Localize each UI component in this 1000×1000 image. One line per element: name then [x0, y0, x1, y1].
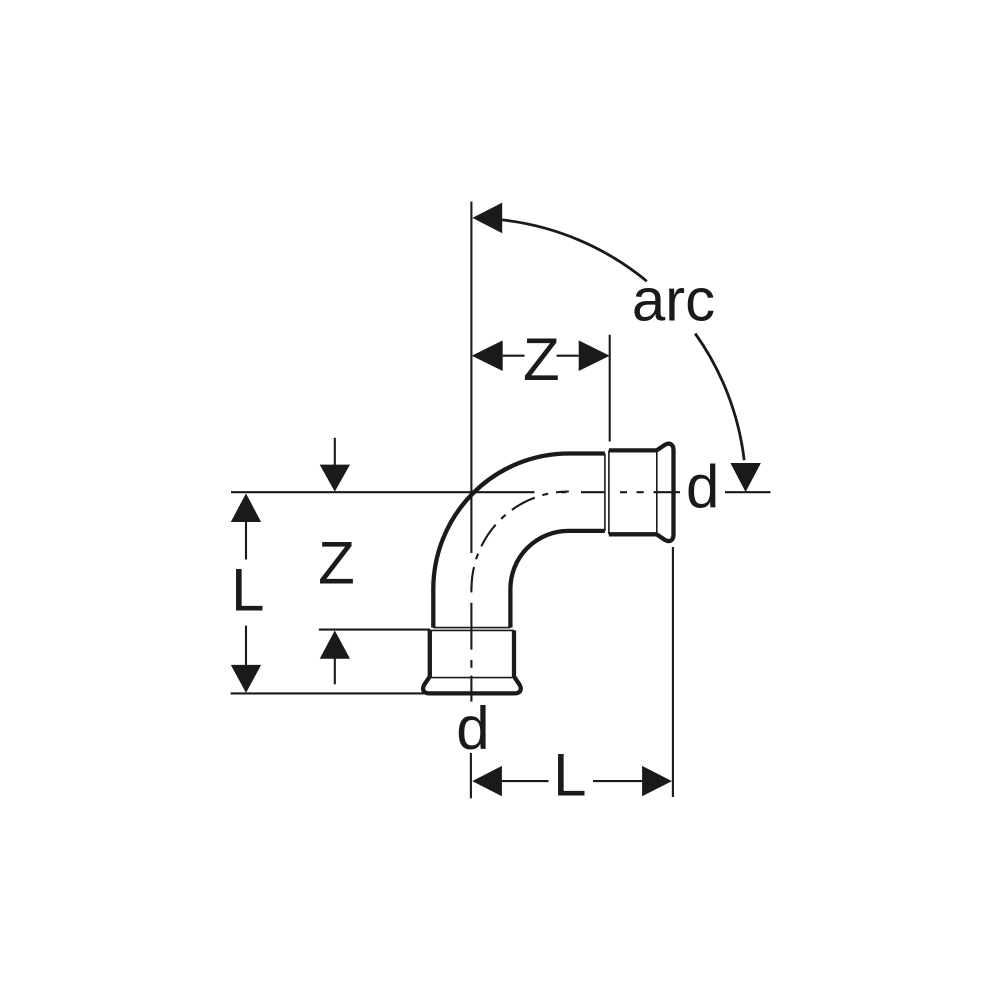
L extension line left (x=470.9): [470, 753, 472, 798]
bottom socket thin detail: flare top line: [432, 677, 513, 679]
Z bottom extent line (y=629.6): [319, 629, 430, 631]
bottom L arrow right: [642, 766, 672, 796]
bottom L arrow left: [472, 766, 502, 796]
svg-text:L: L: [553, 742, 586, 809]
Z dimension (top): line segments: [503, 355, 525, 357]
right socket thin detail: flare inner line: [656, 452, 658, 533]
arc dimension curve lower segment: [695, 334, 744, 461]
elbow outer wall arc + legs: [433, 454, 605, 628]
arc arrow top (pointing left at datum line): [472, 203, 502, 234]
bottom socket outline with press flare: [423, 630, 521, 693]
L extension line right (x=672.9): [672, 547, 674, 797]
right socket thin detail: socket start line: [608, 450, 610, 534]
Z extension line right (x=609.7): [609, 335, 611, 442]
left Z pointer: lower up-arrow with tail: [334, 658, 336, 685]
svg-text:d: d: [456, 695, 489, 762]
right socket outline with press flare (face right): [609, 444, 674, 541]
horizontal dash-dot centerline through right socket: [561, 491, 680, 493]
right socket thin detail: pipe end line: [604, 454, 606, 531]
elbow inner wall arc + legs: [510, 531, 605, 628]
arc dimension curve upper segment: [502, 220, 647, 281]
bottom socket thin detail: pipe end line: [433, 627, 510, 629]
Z dimension arrow right: [579, 340, 610, 371]
Z dimension arrow left: [472, 340, 503, 371]
bottom L dimension line segments: [502, 780, 549, 782]
bottom socket thin detail: socket start line: [430, 629, 514, 631]
left L dimension: lower down-arrow: [245, 626, 247, 667]
left L dimension: upper up-arrow: [245, 521, 247, 560]
vertical dash-dot centerline through bottom socket: [470, 586, 472, 702]
svg-text:d: d: [686, 453, 719, 520]
arc arrow right (pointing down at datum line): [730, 463, 761, 492]
svg-text:L: L: [231, 556, 264, 623]
vertical extension line (main datum, x=471.4): [470, 202, 472, 554]
datum line under arc arrow (right): [725, 491, 771, 493]
bottom face extension line (y=693.4): [231, 692, 424, 694]
svg-text:Z: Z: [318, 529, 355, 596]
svg-text:Z: Z: [523, 326, 560, 393]
left Z pointer: upper down-arrow with tail: [334, 438, 336, 466]
dash-dot centerline arc of bend: [472, 492, 569, 589]
svg-text:arc: arc: [632, 267, 715, 334]
horizontal extension line (left, y=492.2): [231, 491, 535, 493]
